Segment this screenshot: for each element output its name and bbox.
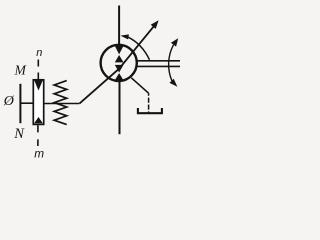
svg-text:M: M	[14, 62, 27, 77]
variable displacement arrowhead	[151, 20, 159, 29]
shaft rotation arrowhead down	[170, 79, 178, 87]
port line top	[118, 6, 120, 46]
swivel rotation arrowhead	[120, 34, 128, 39]
pilot line n (dashed)	[37, 60, 39, 80]
wire servo cylinder to displacement arrow	[44, 103, 79, 105]
port line bottom	[119, 81, 121, 135]
shaft rotation arrowhead up	[171, 38, 178, 46]
svg-text:m: m	[34, 147, 44, 161]
servo cylinder bottom flow triangle	[34, 117, 43, 123]
flow triangle T4	[115, 73, 124, 80]
pilot line m (dashed)	[37, 125, 39, 146]
link wire lever to servo cylinder	[20, 102, 34, 104]
shaft rotation arc (both directions)	[169, 45, 174, 81]
drive shaft line 1	[137, 60, 180, 62]
tank / drain symbol	[138, 108, 162, 113]
pump/motor circle	[101, 45, 137, 81]
servo cylinder body	[33, 80, 43, 125]
svg-text:n: n	[36, 47, 42, 59]
drive shaft line 2	[137, 65, 180, 67]
flow triangle T2	[115, 55, 124, 62]
svg-text:Ø: Ø	[3, 94, 15, 109]
case drain wire	[131, 78, 148, 93]
swivel rotation arc	[128, 37, 149, 60]
feedback lever bar	[19, 84, 21, 123]
svg-text:N: N	[13, 126, 25, 142]
variable displacement arrow shaft	[79, 26, 154, 104]
flow triangle T3	[115, 65, 124, 73]
servo cylinder top flow triangle	[34, 80, 43, 90]
centering spring	[54, 81, 66, 125]
flow triangle T1	[115, 46, 124, 55]
case drain dashed line	[148, 93, 150, 113]
